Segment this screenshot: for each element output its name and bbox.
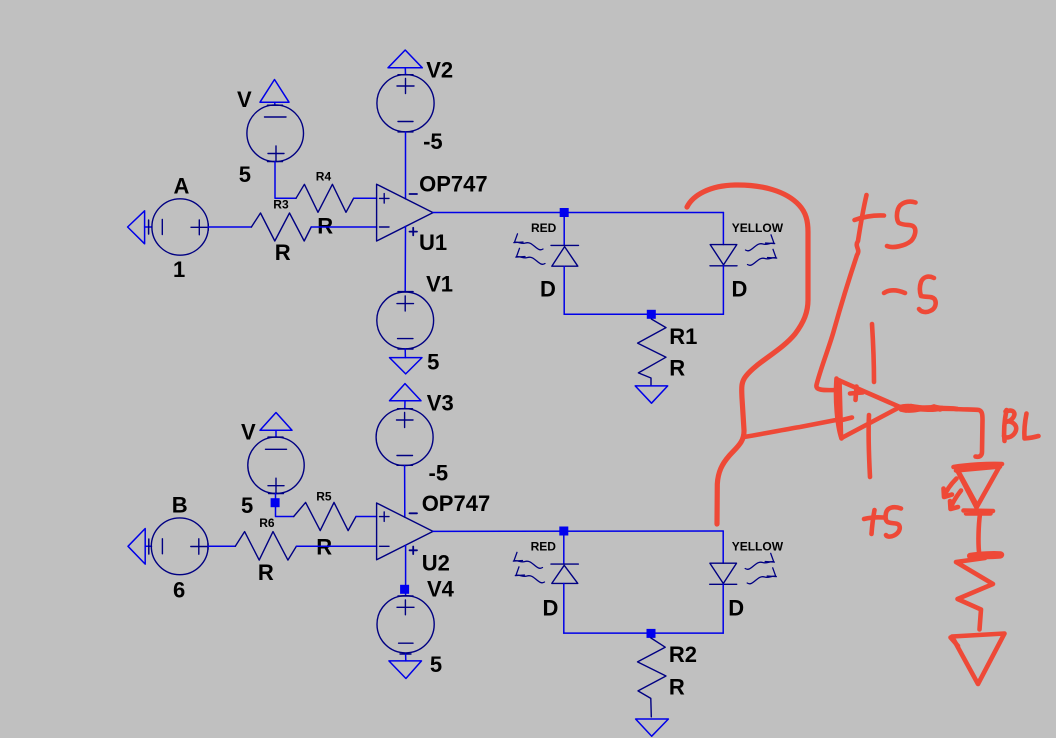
red sketched op-amp triangle xyxy=(836,379,841,439)
power arrow above source V (bottom) xyxy=(260,413,292,437)
red sketched LED top bar xyxy=(954,464,1003,467)
red sketched LED triangle xyxy=(957,467,1000,508)
svg-text:R: R xyxy=(258,560,274,585)
terminal tick top of V (bottom) xyxy=(268,436,283,438)
light arrows of YELLOW LED xyxy=(746,235,777,265)
wire V(top) to R4 xyxy=(275,162,296,199)
red sketched op-amp V- pin xyxy=(872,324,874,382)
voltage source V (bottom, value 5) xyxy=(248,437,304,493)
voltage source V (top, value 5) xyxy=(247,105,304,162)
wire down to YELLOW LED xyxy=(722,213,724,245)
voltage source B (value 6) xyxy=(151,518,208,575)
svg-text:R5: R5 xyxy=(316,490,332,504)
svg-text:R2: R2 xyxy=(669,642,697,667)
svg-text:RED: RED xyxy=(531,540,557,554)
wire R6 to U2 -input xyxy=(296,545,376,547)
op-amp U2 (OP747) xyxy=(377,503,433,560)
ground below V4 xyxy=(389,661,422,679)
svg-text:6: 6 xyxy=(173,577,185,602)
terminal tick top of V2 xyxy=(398,74,413,76)
svg-text:V1: V1 xyxy=(426,271,453,296)
resistor R1 xyxy=(638,319,666,386)
LED D (YELLOW, top circuit) xyxy=(710,245,737,266)
svg-text:R6: R6 xyxy=(259,516,275,530)
terminal tick top of V3 xyxy=(398,408,413,410)
red wire curve from top node to sketch area xyxy=(687,185,808,524)
red sketched LED bottom bar xyxy=(964,511,994,514)
svg-text:OP747: OP747 xyxy=(422,491,491,516)
svg-text:D: D xyxy=(540,277,556,302)
svg-text:D: D xyxy=(728,596,744,621)
svg-text:RED: RED xyxy=(531,221,557,235)
junction above V4 xyxy=(400,585,409,594)
input arrow of source B xyxy=(128,529,152,565)
voltage source V3 (value -5) xyxy=(376,409,433,466)
svg-text:V3: V3 xyxy=(427,391,454,416)
svg-text:R: R xyxy=(317,214,333,239)
wire YELLOW LED to bottom node xyxy=(722,266,724,315)
svg-text:-5: -5 xyxy=(423,129,443,154)
terminal tick left of A xyxy=(148,220,150,234)
voltage source V2 (value -5) xyxy=(377,75,434,132)
svg-text:R3: R3 xyxy=(273,198,289,212)
wire R3 to U1 -input xyxy=(311,226,376,228)
svg-text:R4: R4 xyxy=(316,170,332,184)
light arrows of RED LED xyxy=(514,234,545,264)
bottom node wire (top circuit) xyxy=(564,313,723,315)
wire U1 V+ pin to V1 xyxy=(404,226,406,292)
resistor R6 xyxy=(235,532,296,561)
wire V1 to ground xyxy=(404,349,406,358)
wire V3 to U2 V- pin xyxy=(404,466,406,518)
svg-text:U1: U1 xyxy=(419,230,447,255)
voltage source A (value 1) xyxy=(152,199,208,255)
red output scribble of sketched op-amp xyxy=(899,406,934,408)
resistor R4 xyxy=(296,184,354,212)
LED D (RED, bottom circuit) xyxy=(551,564,578,583)
ground below R1 xyxy=(635,386,668,403)
terminal tick top of V1 xyxy=(398,291,413,293)
plus mark at U1 V+ pin xyxy=(410,228,418,236)
svg-text:V4: V4 xyxy=(427,577,455,602)
svg-text:1: 1 xyxy=(173,257,185,282)
svg-text:5: 5 xyxy=(239,162,251,187)
resistor R3 xyxy=(251,213,311,241)
junction at R1 xyxy=(647,310,656,319)
bottom node wire (bottom circuit) xyxy=(564,632,723,634)
wire YELLOW LED to bottom node (bottom circuit) xyxy=(722,584,724,633)
red annotations (hand drawn) xyxy=(687,185,1039,684)
wire V2 to U1 V- pin xyxy=(405,132,407,199)
wire down to YELLOW LED (bottom) xyxy=(722,531,724,563)
minus mark at U2 V- pin xyxy=(410,512,418,514)
light arrows of YELLOW LED (bottom) xyxy=(745,553,776,583)
svg-text:V: V xyxy=(237,87,252,112)
voltage source V1 (value 5) xyxy=(377,292,434,349)
wire RED LED to bottom node (bottom circuit) xyxy=(563,584,565,634)
plus mark at U2 V+ pin xyxy=(410,547,418,555)
junction on V(bottom) lead xyxy=(271,498,280,507)
red wire LED to resistor sketch xyxy=(978,514,980,552)
wire down to RED LED (bottom) xyxy=(563,531,565,564)
red sketched resistor xyxy=(969,553,1002,557)
red wire branch to sketched op-amp -input xyxy=(744,420,836,437)
red wire output to BL node xyxy=(955,409,983,457)
junction at R2 xyxy=(647,629,656,638)
wire A to R3 xyxy=(208,226,251,228)
red minus mark inside sketched op-amp xyxy=(840,418,852,421)
wire U1 output to LEDs (node top) xyxy=(433,212,723,214)
minus mark at U1 V- pin xyxy=(410,193,418,195)
svg-text:5: 5 xyxy=(427,350,439,375)
resistor R2 xyxy=(638,638,667,717)
svg-text:5: 5 xyxy=(241,493,253,518)
svg-text:-5: -5 xyxy=(429,461,449,486)
ground below R2 xyxy=(636,719,669,736)
red plus mark inside sketched op-amp xyxy=(850,387,863,401)
red -5 annotation xyxy=(884,290,905,293)
wire V4 to ground xyxy=(405,654,407,661)
red sketched op-amp V+ pin xyxy=(869,415,870,477)
red +5 annotation (bottom) xyxy=(872,510,875,534)
power arrow above source V (top) xyxy=(260,80,289,106)
terminal tick top of V4 xyxy=(398,595,413,597)
power arrow above V3 xyxy=(390,384,422,409)
terminal tick top of V (top) xyxy=(268,104,283,106)
svg-text:D: D xyxy=(732,277,748,302)
resistor R5 xyxy=(294,502,356,530)
ground below V1 xyxy=(390,358,423,374)
svg-text:V2: V2 xyxy=(426,57,453,82)
svg-text:R: R xyxy=(275,240,291,265)
op-amp U1 (OP747) xyxy=(377,184,433,241)
svg-text:YELLOW: YELLOW xyxy=(732,221,784,235)
wire B to R6 xyxy=(208,545,235,547)
junction at U1 output / RED branch xyxy=(560,208,569,217)
svg-text:U2: U2 xyxy=(422,551,450,576)
junction at U2 output / RED branch xyxy=(559,527,568,536)
wire V(bottom) to R5 xyxy=(276,494,294,517)
svg-text:R1: R1 xyxy=(669,324,697,349)
wire R4 to U1 +input xyxy=(354,197,377,199)
svg-text:OP747: OP747 xyxy=(419,171,488,196)
LED D (YELLOW, bottom circuit) xyxy=(710,563,737,584)
red sketched LED light arrows xyxy=(944,479,957,498)
svg-text:5: 5 xyxy=(430,652,442,677)
svg-text:D: D xyxy=(543,596,559,621)
svg-text:B: B xyxy=(172,493,188,518)
svg-text:V: V xyxy=(241,420,256,445)
light arrows of RED LED (bottom) xyxy=(513,552,544,582)
wire U2 V+ pin to V4 xyxy=(405,545,407,595)
svg-text:R: R xyxy=(669,674,685,699)
voltage source V4 (value 5) xyxy=(377,596,434,654)
red label BL xyxy=(1004,410,1006,441)
svg-text:R: R xyxy=(669,356,685,381)
input arrow of source A xyxy=(128,211,152,244)
wire RED LED to bottom node xyxy=(563,266,565,314)
wire U2 output to LEDs (node top, bottom circuit) xyxy=(433,530,723,532)
red +5 annotation (top) xyxy=(816,195,866,390)
terminal tick left of B xyxy=(148,539,150,554)
svg-text:A: A xyxy=(174,173,190,198)
LED D (RED, top circuit) xyxy=(551,245,579,266)
wire R5 to U2 +input xyxy=(356,516,377,518)
wire down to RED LED xyxy=(563,213,565,246)
power arrow above V2 xyxy=(388,50,422,75)
red sketched ground arrow xyxy=(952,634,1005,685)
svg-text:YELLOW: YELLOW xyxy=(732,540,784,554)
